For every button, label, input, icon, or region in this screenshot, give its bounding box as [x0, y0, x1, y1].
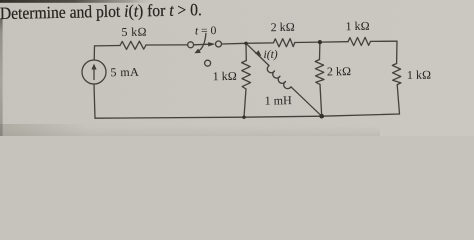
paper grain — [0, 0, 474, 136]
svg-text:5 kΩ: 5 kΩ — [121, 25, 147, 39]
wire below source — [94, 84, 95, 118]
wire 2k to node B — [295, 41, 320, 43]
top page-edge dark strip — [0, 0, 150, 3]
paper background — [0, 0, 474, 136]
bottom junction dot (inductor/2k) — [319, 114, 324, 119]
wire node B to 1k — [320, 41, 348, 43]
switch blade with arrow — [194, 43, 210, 46]
switch lower throw contact — [205, 60, 211, 66]
wire left side — [93, 46, 95, 60]
wire 1k mid to bottom rail — [244, 89, 246, 117]
arrow i(t) on diagonal — [255, 50, 261, 56]
wire bottom rail — [95, 114, 400, 118]
inductor L1 1 mH coil — [265, 65, 292, 92]
svg-text:1 kΩ: 1 kΩ — [407, 68, 431, 82]
current source I1 5 mA — [82, 60, 106, 84]
wire to switch — [146, 44, 188, 46]
svg-text:t = 0: t = 0 — [195, 24, 217, 37]
resistor R3 1 kOhm top — [348, 37, 371, 45]
bottom page-edge soft band — [0, 126, 380, 136]
svg-text:2 kΩ: 2 kΩ — [271, 20, 295, 34]
wire diagonal lower — [292, 88, 322, 116]
wire node A down — [245, 43, 247, 60]
node A junction dot — [244, 42, 247, 45]
svg-text:i(t): i(t) — [264, 48, 278, 61]
bottom junction dot (1k mid) — [242, 116, 245, 119]
svg-text:1 kΩ: 1 kΩ — [213, 69, 237, 83]
svg-text:1 kΩ: 1 kΩ — [345, 19, 369, 33]
node B junction dot — [318, 40, 322, 44]
resistor R1 5 kOhm — [120, 41, 146, 49]
resistor R2 2 kOhm — [274, 39, 295, 47]
wire 2k vert to bottom node — [320, 84, 322, 116]
switch right contact — [216, 41, 222, 47]
wire right bottom — [397, 85, 399, 114]
wire top rail left segment — [95, 45, 121, 47]
resistor R5 2 kOhm vertical — [315, 60, 324, 85]
title text — [0, 0, 202, 23]
svg-text:5 mA: 5 mA — [110, 65, 139, 80]
wire switch to node A — [222, 42, 246, 45]
wire right side down — [396, 41, 398, 63]
wire 1k to top-right corner — [371, 40, 398, 42]
svg-text:1 mH: 1 mH — [265, 93, 293, 107]
wire diagonal upper (inductor branch) — [246, 43, 268, 64]
svg-text:Determine and plot i(t) for t: Determine and plot i(t) for t > 0. — [0, 0, 202, 23]
switch motion arc — [198, 33, 206, 51]
svg-text:2 kΩ: 2 kΩ — [327, 64, 351, 78]
left page-edge dark strip — [0, 19, 3, 136]
wire node B down — [319, 42, 321, 59]
resistor R6 1 kOhm right vertical — [392, 64, 401, 85]
switch SW1 left contact — [188, 42, 194, 48]
wire node A to 2k — [246, 42, 274, 44]
resistor R4 1 kOhm middle vertical — [242, 61, 251, 90]
